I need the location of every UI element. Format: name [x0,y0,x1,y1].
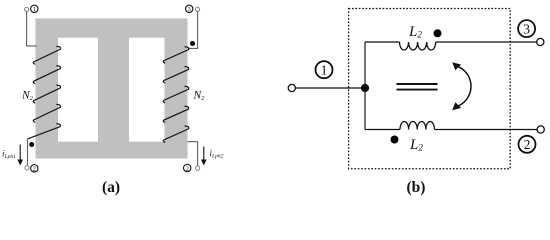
terminal T1 (top-left open circle) [25,7,29,11]
coupling double arrow [452,62,471,110]
core (silver E-core, figure a) [36,18,188,158]
polarity dot top (figure b) [434,29,442,37]
winding N2 left (5 turns on left leg) [28,46,60,138]
svg-text:(b): (b) [407,179,426,196]
vertical wire at junction [364,42,366,130]
svg-text:1: 1 [33,6,36,13]
junction node dot [361,84,369,92]
svg-text:3: 3 [188,6,191,13]
node label 2 (circled, figure b) [519,136,536,153]
dashed box (figure b) [349,9,511,169]
node label 3 (circled) [186,5,193,13]
coupling core bars [397,84,438,90]
current label iLph2 [201,147,224,166]
svg-text:2: 2 [33,166,36,173]
node label 1 (circled, figure b) [316,61,333,78]
current label iLph1 [2,145,23,166]
terminal T2 (bottom-right open circle) [196,166,200,170]
svg-text:2: 2 [524,137,531,152]
terminal T3 (top-right open circle) [196,7,200,11]
node label 3 (circled, figure b) [518,20,535,37]
wire terminal1 to junction [296,87,366,89]
svg-text:2: 2 [186,165,189,172]
terminal 2 (right open circle) [537,126,544,133]
terminal T0 (bottom-left open circle) [25,166,29,170]
svg-text:3: 3 [523,22,530,37]
node label 1 (circled) [31,5,38,13]
terminal 1 (left open circle, figure b) [288,84,295,91]
wire from T1 to left winding [27,12,37,46]
winding N2 right (5 turns on right leg) [163,47,188,142]
inductor L2 bottom [365,122,537,130]
wire from T3 to right winding [188,12,197,49]
node label 0 (circled) [31,165,38,173]
node label 2 (circled) [184,164,191,172]
wire left winding to T-bottom-left [27,139,29,166]
polarity dot right winding [190,41,195,46]
polarity dot bottom (figure b) [391,136,399,144]
svg-text:1: 1 [321,63,328,78]
inductor L2 top [365,42,537,50]
wire right winding to T-bottom-right [188,142,198,166]
terminal 3 (right open circle) [537,38,544,45]
polarity dot left winding [29,142,34,147]
svg-text:(a): (a) [102,179,120,196]
